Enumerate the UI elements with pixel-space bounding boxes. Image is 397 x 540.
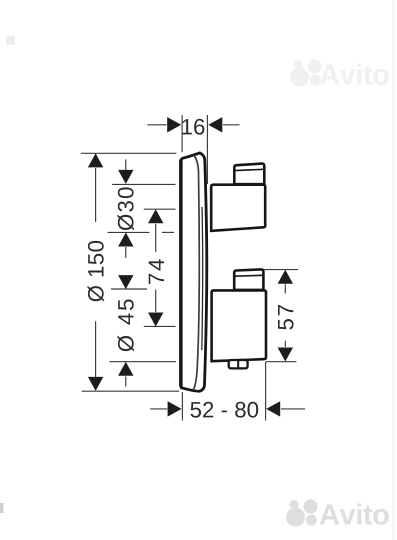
lower handle body	[212, 290, 266, 361]
watermark avito text bottom-right	[320, 504, 389, 525]
faceplate outline	[181, 153, 207, 391]
edge artifact top-left	[6, 36, 15, 45]
dimension text 16	[182, 119, 204, 135]
dimension 57 line and arrows	[278, 270, 293, 362]
faceplate front-face rim line	[193, 155, 203, 390]
watermark avito logo top-right	[290, 60, 322, 87]
extension line bottom-of-upper-handle	[108, 231, 175, 233]
dimension 16 line and arrows	[147, 117, 239, 132]
dimension D45 arrows	[118, 275, 133, 386]
dimension 74 line and arrows	[148, 209, 163, 326]
extension line top-of-plate	[81, 152, 177, 154]
dimension text D30	[117, 187, 134, 230]
extension line vertical wall-plane bottom	[181, 392, 183, 421]
dimension 52-80 line and arrows	[150, 401, 305, 416]
upper handle body	[211, 185, 265, 231]
lower handle safety button	[229, 360, 248, 368]
dimension text 52-80	[190, 402, 258, 418]
extension line bottom-of-plate	[82, 390, 180, 392]
extension line vertical handle-front bottom	[265, 362, 267, 421]
edge artifact left	[0, 503, 4, 513]
dimension D150 line and arrows	[88, 153, 103, 391]
dimension D30 arrows	[118, 159, 133, 258]
extension line right bottom-of-lower-handle	[266, 361, 297, 363]
lower handle grip tab	[234, 269, 263, 290]
extension line bottom-of-lower-handle	[109, 361, 176, 363]
watermark avito logo bottom-right	[286, 500, 318, 527]
dimension text D150	[88, 241, 105, 302]
extension line vertical plate-front top	[206, 115, 208, 184]
extension line top-of-lower-handle	[111, 288, 147, 290]
dimension text 74	[149, 259, 164, 284]
watermark avito text top-right	[320, 64, 389, 85]
border line right	[392, 0, 394, 540]
extension line center-of-lower-handle	[144, 325, 176, 327]
upper handle grip tab	[234, 164, 264, 185]
dimension text D45	[118, 299, 135, 351]
extension line center-of-upper-handle	[144, 208, 176, 210]
extension line top-of-upper-handle	[112, 183, 176, 185]
extension line vertical wall-plane top	[181, 115, 183, 152]
dimension text 57	[278, 305, 294, 330]
extension line right top-of-lower-handle-tab	[263, 269, 298, 271]
